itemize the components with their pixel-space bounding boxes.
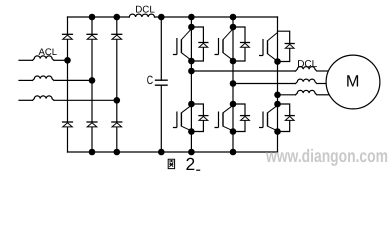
node DC+ leg2 xyxy=(89,14,96,21)
diode D12 freewheel Q6 xyxy=(285,116,295,121)
wire DC+ bus right section xyxy=(155,16,278,18)
inductor ACL phase S xyxy=(33,76,54,80)
transistor Q6 IGBT bottom leg3 xyxy=(259,105,278,131)
svg-text:C: C xyxy=(147,73,154,87)
svg-text:M: M xyxy=(346,72,360,90)
wire output rail V xyxy=(233,83,296,85)
diode D7 freewheel Q1 xyxy=(198,43,208,48)
node output U xyxy=(188,68,195,75)
node phase S to leg2 xyxy=(89,77,96,84)
wire freewheel loop Q2 xyxy=(233,27,245,61)
diode D6 rectifier bottom leg3 xyxy=(111,122,122,127)
wire inverter leg 1 vertical xyxy=(190,17,192,152)
diode D9 freewheel Q3 xyxy=(285,44,295,49)
node DC+ leg3 xyxy=(114,14,121,21)
wire output rail W xyxy=(278,94,296,96)
node Q5 collector split xyxy=(230,101,237,108)
inductor output DCL V xyxy=(296,79,317,83)
inductor ACL phase T xyxy=(33,96,54,100)
capacitor C plates xyxy=(156,80,168,85)
node Q2 emitter xyxy=(230,58,237,65)
node output V xyxy=(230,80,237,87)
diode D8 freewheel Q2 xyxy=(240,43,250,48)
inductor output DCL U xyxy=(296,67,317,71)
node phase R to leg1 xyxy=(64,57,71,64)
transistor Q1 IGBT top leg1 xyxy=(173,29,192,61)
node DC- leg3 xyxy=(114,149,121,156)
wire rectifier leg 3 vertical xyxy=(116,17,118,152)
inductor DCL DC link reactor xyxy=(129,14,154,17)
diode D1 rectifier top leg1 xyxy=(62,34,73,39)
wire freewheel loop Q5 xyxy=(233,104,245,132)
wire output rail U xyxy=(191,70,295,72)
diode D5 rectifier bottom leg2 xyxy=(86,122,97,127)
svg-text:2: 2 xyxy=(186,154,196,173)
node output W xyxy=(274,92,281,99)
wire inverter leg 2 vertical xyxy=(232,17,234,152)
transistor Q3 IGBT top leg3 xyxy=(259,33,278,62)
svg-text:www.diangon.com: www.diangon.com xyxy=(265,146,388,166)
inductor ACL phase R xyxy=(33,56,54,60)
wire freewheel loop Q6 xyxy=(278,104,290,132)
wire rectifier leg 2 vertical xyxy=(91,17,93,152)
node Q1 emitter xyxy=(188,58,195,65)
wire AC input phase T xyxy=(19,99,33,101)
diode D11 freewheel Q5 xyxy=(240,116,250,121)
svg-text:DCL: DCL xyxy=(297,59,317,70)
motor M circle xyxy=(326,55,380,109)
node Q6 collector split xyxy=(274,101,281,108)
label figure caption 图 glyph drawn xyxy=(168,159,174,168)
wire output W to motor xyxy=(318,94,332,96)
node DC- inverter leg1 xyxy=(188,149,195,156)
wire rectifier leg 1 vertical xyxy=(67,17,69,152)
wire DC- bus xyxy=(68,151,278,153)
wire freewheel loop Q4 xyxy=(191,104,203,132)
wire DC+ bus left section xyxy=(68,16,130,18)
diode D3 rectifier top leg3 xyxy=(111,34,122,39)
node DC+ inverter leg1 xyxy=(188,14,195,21)
capacitor C bottom lead xyxy=(160,85,162,152)
diode D10 freewheel Q4 xyxy=(198,116,208,121)
node Q2 collector split xyxy=(230,24,237,31)
node DC+ inverter leg2 xyxy=(230,14,237,21)
svg-text:ACL: ACL xyxy=(39,47,57,58)
inductor output DCL W xyxy=(296,90,317,94)
wire output U to motor xyxy=(318,70,332,72)
label caption underscore xyxy=(196,169,200,171)
node Q5 emitter xyxy=(230,128,237,135)
transistor Q4 IGBT bottom leg1 xyxy=(173,105,192,131)
svg-text:DCL: DCL xyxy=(135,4,155,15)
node DC- leg2 xyxy=(89,149,96,156)
wire phase S to rectifier leg 2 xyxy=(55,79,92,81)
capacitor C top lead xyxy=(160,17,162,80)
transistor Q5 IGBT bottom leg2 xyxy=(215,105,234,131)
transistor Q2 IGBT top leg2 xyxy=(215,29,234,61)
node Q4 collector split xyxy=(188,101,195,108)
wire phase T to rectifier leg 3 xyxy=(55,99,117,101)
wire phase R to rectifier leg 1 xyxy=(55,59,68,61)
wire AC input phase R xyxy=(19,59,33,61)
node Q3 emitter xyxy=(274,58,281,65)
diode D4 rectifier bottom leg1 xyxy=(62,122,73,127)
node Q6 emitter xyxy=(274,128,281,135)
wire freewheel loop Q1 xyxy=(191,27,203,61)
node Q1 collector split xyxy=(188,24,195,31)
node DC+ capacitor tap xyxy=(158,14,165,21)
node phase T to leg3 xyxy=(114,97,121,104)
node DC- inverter leg2 xyxy=(230,149,237,156)
node DC- capacitor tap xyxy=(158,149,165,156)
node Q4 emitter xyxy=(188,128,195,135)
wire inverter leg 3 vertical xyxy=(277,17,279,152)
wire output V to motor xyxy=(318,83,330,85)
wire AC input phase S xyxy=(19,79,33,81)
diode D2 rectifier top leg2 xyxy=(86,34,97,39)
wire freewheel loop Q3 xyxy=(278,31,290,61)
